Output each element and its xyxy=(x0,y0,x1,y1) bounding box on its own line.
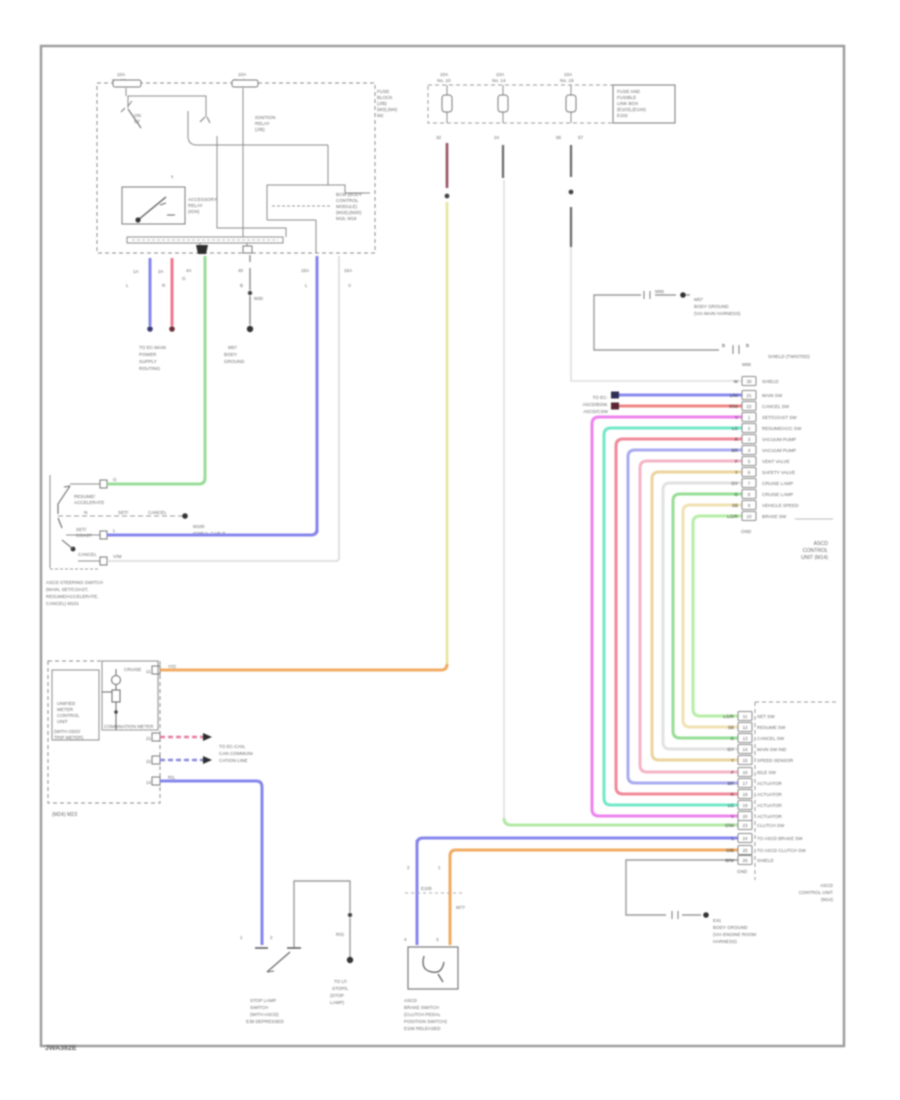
svg-text:HARNESS): HARNESS) xyxy=(713,939,737,944)
svg-text:METER: METER xyxy=(57,707,74,712)
wire orange horizontal xyxy=(450,850,738,856)
fuse box top middle dashed xyxy=(428,85,613,123)
svg-text:(WITH ODO/: (WITH ODO/ xyxy=(54,729,81,734)
loop palegreen xyxy=(693,516,742,716)
svg-text:VEHICLE SPEED: VEHICLE SPEED xyxy=(762,503,799,508)
inner dashed line xyxy=(272,205,330,207)
svg-text:CANCEL: CANCEL xyxy=(148,510,167,515)
shield splice dot 2 xyxy=(703,912,709,918)
svg-text:CANCEL SW: CANCEL SW xyxy=(757,736,785,741)
common splice dot xyxy=(182,513,188,519)
wire pale cancel to switch xyxy=(107,558,339,561)
svg-text:2: 2 xyxy=(748,426,751,431)
svg-text:CLUTCH SW: CLUTCH SW xyxy=(757,823,785,828)
svg-text:BODY GROUND: BODY GROUND xyxy=(694,304,729,309)
svg-text:22: 22 xyxy=(746,404,752,409)
meter pin txl xyxy=(152,733,160,741)
svg-text:8: 8 xyxy=(748,492,751,497)
svg-text:SB: SB xyxy=(732,503,738,508)
wire palegreen horizontal xyxy=(504,818,738,825)
wire TX dashed pink xyxy=(160,736,203,739)
svg-text:(M18),(M20): (M18),(M20) xyxy=(336,210,362,215)
svg-text:L: L xyxy=(305,283,308,288)
fuse F2 xyxy=(232,80,258,87)
svg-text:SHIELD: SHIELD xyxy=(762,379,779,384)
svg-text:10: 10 xyxy=(746,514,752,519)
svg-text:E38 DEPRESSED: E38 DEPRESSED xyxy=(246,1019,284,1024)
svg-text:E106 RELEASED: E106 RELEASED xyxy=(404,1026,441,1031)
svg-text:3: 3 xyxy=(748,437,751,442)
wire gray segment f5b xyxy=(570,207,572,247)
svg-text:3: 3 xyxy=(436,937,439,942)
svg-text:GY: GY xyxy=(731,481,738,486)
svg-text:SET SW: SET SW xyxy=(757,714,775,719)
svg-text:GND: GND xyxy=(737,869,748,874)
loop beige xyxy=(683,505,742,727)
svg-text:20: 20 xyxy=(742,814,748,819)
svg-text:14: 14 xyxy=(742,747,748,752)
svg-text:FUSE: FUSE xyxy=(377,89,389,94)
fuse F1 xyxy=(113,80,141,87)
svg-text:O/B: O/B xyxy=(726,848,734,853)
svg-text:(M24) M23: (M24) M23 xyxy=(52,812,77,818)
svg-text:15: 15 xyxy=(742,758,748,763)
fuse F4 xyxy=(502,85,504,123)
svg-text:RELAY: RELAY xyxy=(255,121,270,126)
svg-text:LAMP): LAMP) xyxy=(330,1000,345,1005)
bus bar xyxy=(127,237,283,243)
svg-text:Y/O: Y/O xyxy=(168,664,176,669)
svg-text:1A: 1A xyxy=(133,269,140,274)
svg-text:(WITH ASCD): (WITH ASCD) xyxy=(250,1012,279,1017)
svg-text:BRAKE SW: BRAKE SW xyxy=(762,514,787,519)
meter pin stop xyxy=(152,777,160,785)
svg-text:MAIN SW IND: MAIN SW IND xyxy=(757,747,787,752)
wire orange down pedal xyxy=(449,856,452,945)
svg-text:ON: ON xyxy=(134,113,141,118)
svg-text:ACTUATOR: ACTUATOR xyxy=(757,781,783,786)
top right shield loop xyxy=(594,295,719,350)
svg-text:No. 19: No. 19 xyxy=(560,78,574,83)
stop lamp switch contacts xyxy=(255,947,301,949)
wire ground gray xyxy=(249,255,251,262)
svg-text:21: 21 xyxy=(146,736,152,741)
svg-text:LG/R: LG/R xyxy=(723,714,734,719)
svg-text:CAN COMMUNI-: CAN COMMUNI- xyxy=(219,751,254,756)
svg-text:CRUISE: CRUISE xyxy=(124,667,141,672)
svg-text:GND: GND xyxy=(741,529,752,534)
ASCD steering switch left bar xyxy=(49,475,51,568)
svg-text:M66: M66 xyxy=(655,289,664,294)
svg-text:TO ASCD CLUTCH SW: TO ASCD CLUTCH SW xyxy=(757,848,806,853)
svg-text:UNIT (M14): UNIT (M14) xyxy=(801,555,828,561)
svg-text:ASCD/CSW: ASCD/CSW xyxy=(583,409,608,414)
svg-text:40: 40 xyxy=(238,268,244,273)
svg-text:16A: 16A xyxy=(344,268,353,273)
svg-text:N: N xyxy=(84,510,87,515)
svg-text:E41: E41 xyxy=(713,918,722,923)
wire Y down long xyxy=(446,202,449,666)
svg-text:GROUND: GROUND xyxy=(224,359,245,364)
arrow TX xyxy=(203,733,212,741)
vertical into box xyxy=(327,145,329,185)
bottom right shield loop xyxy=(626,860,742,915)
svg-text:CONTROL: CONTROL xyxy=(57,713,80,718)
wire violet from meter down xyxy=(160,781,262,945)
svg-text:L/W: L/W xyxy=(730,393,739,398)
connector end R xyxy=(169,326,175,332)
svg-text:1: 1 xyxy=(438,865,441,870)
stop lamp switch gray U wire xyxy=(294,881,350,947)
svg-text:UNIFIED: UNIFIED xyxy=(57,701,76,706)
svg-text:CONTROL UNIT: CONTROL UNIT xyxy=(799,890,833,895)
resistor xyxy=(112,690,120,702)
relay contact curve xyxy=(188,111,328,145)
svg-text:1: 1 xyxy=(748,415,751,420)
wire blue horizontal xyxy=(417,838,738,844)
svg-text:E102: E102 xyxy=(617,113,628,118)
svg-text:ACTUATOR: ACTUATOR xyxy=(757,803,783,808)
svg-text:B/W: B/W xyxy=(725,858,734,863)
svg-text:9: 9 xyxy=(748,503,751,508)
svg-text:(M14): (M14) xyxy=(821,897,833,902)
svg-text:17: 17 xyxy=(742,781,748,786)
module box lower dashed xyxy=(755,702,836,880)
svg-text:19: 19 xyxy=(742,803,748,808)
svg-text:BODY GROUND: BODY GROUND xyxy=(713,925,748,930)
svg-text:ACTUATOR: ACTUATOR xyxy=(757,814,783,819)
wire violet down pedal xyxy=(416,840,419,945)
switch arm xyxy=(58,486,70,514)
wire blue to switch xyxy=(107,529,317,535)
svg-text:SPEED SENSOR: SPEED SENSOR xyxy=(757,758,794,763)
svg-text:RESUME SW: RESUME SW xyxy=(757,725,786,730)
svg-text:LG: LG xyxy=(728,803,735,808)
cancel arm dot xyxy=(71,547,76,552)
svg-text:SUPPLY: SUPPLY xyxy=(139,359,157,364)
arrow RX xyxy=(203,756,212,764)
wire relay top xyxy=(125,88,127,96)
svg-text:BCM (BODY: BCM (BODY xyxy=(336,192,362,197)
meter right inner box xyxy=(102,661,158,730)
resume contact xyxy=(70,483,100,485)
svg-text:SB: SB xyxy=(728,725,734,730)
svg-text:SAFETY VALVE: SAFETY VALVE xyxy=(762,470,795,475)
svg-text:Y: Y xyxy=(735,470,738,475)
left connector squares xyxy=(611,392,619,399)
wire pale cancel down xyxy=(338,256,340,559)
svg-text:4: 4 xyxy=(748,448,751,453)
svg-text:10A: 10A xyxy=(440,72,449,77)
svg-text:CANCEL: CANCEL xyxy=(78,552,97,557)
svg-text:TO EC-MAIN: TO EC-MAIN xyxy=(139,345,166,350)
wire pale down long f4 xyxy=(503,180,505,823)
svg-text:M16, M19: M16, M19 xyxy=(336,216,357,221)
splice dot xyxy=(445,194,450,199)
svg-text:ASCD: ASCD xyxy=(814,541,829,547)
svg-text:ROUTING: ROUTING xyxy=(139,366,161,371)
svg-text:COAST: COAST xyxy=(76,533,92,538)
wire pale to pin xyxy=(571,379,742,381)
svg-text:V/W: V/W xyxy=(113,554,122,559)
svg-text:SHIELD: SHIELD xyxy=(757,858,774,863)
svg-text:(J/B): (J/B) xyxy=(377,101,387,106)
connector end L xyxy=(147,326,153,332)
svg-text:VENT VALVE: VENT VALVE xyxy=(762,459,790,464)
cancel contact xyxy=(78,560,100,562)
svg-text:BLOCK: BLOCK xyxy=(377,95,394,100)
loop light gray xyxy=(663,483,742,749)
svg-text:ASCD STEERING SWITCH: ASCD STEERING SWITCH xyxy=(46,580,103,585)
svg-text:(CLUTCH PEDAL: (CLUTCH PEDAL xyxy=(404,1012,441,1017)
loop pink xyxy=(640,461,742,772)
splice dot f5 xyxy=(569,190,574,195)
svg-text:POSITION SWITCH): POSITION SWITCH) xyxy=(404,1019,447,1024)
meter dashed separator xyxy=(102,729,158,731)
svg-text:M77: M77 xyxy=(456,905,465,910)
svg-text:TRIP METER): TRIP METER) xyxy=(54,735,84,740)
svg-text:CRUISE LAMP: CRUISE LAMP xyxy=(762,492,793,497)
svg-text:ASCD/BSW,: ASCD/BSW, xyxy=(582,402,608,407)
svg-text:M66: M66 xyxy=(742,362,751,367)
loop green xyxy=(673,494,742,738)
svg-text:G: G xyxy=(182,276,186,281)
svg-text:UNIT: UNIT xyxy=(57,719,68,724)
combination meter dashed box xyxy=(48,661,160,803)
svg-text:6: 6 xyxy=(748,470,751,475)
svg-text:JWA382E: JWA382E xyxy=(45,1045,77,1052)
wire RX dashed violet xyxy=(160,759,203,762)
svg-text:MODULE): MODULE) xyxy=(336,204,358,209)
svg-text:No. 10: No. 10 xyxy=(437,78,451,83)
svg-text:RESUME/ACCELERATE,: RESUME/ACCELERATE, xyxy=(46,594,99,599)
wire fuse2 down xyxy=(242,88,244,237)
circuit breaker box xyxy=(613,85,675,123)
svg-text:SWITCH: SWITCH xyxy=(250,1005,268,1010)
svg-text:IDLE SW: IDLE SW xyxy=(757,770,777,775)
svg-text:TO LT-: TO LT- xyxy=(334,979,348,984)
ignition switch arm xyxy=(128,109,141,128)
svg-text:ACTUATOR: ACTUATOR xyxy=(757,792,783,797)
svg-text:G/W: G/W xyxy=(725,823,735,828)
splice end dot xyxy=(347,957,353,963)
svg-text:LG: LG xyxy=(732,426,739,431)
wire gray segment f5 xyxy=(570,145,572,177)
svg-text:SHIELD (TWISTED): SHIELD (TWISTED) xyxy=(768,354,810,359)
svg-text:RELAY: RELAY xyxy=(188,203,203,208)
svg-text:P: P xyxy=(735,459,738,464)
svg-text:TO EC-: TO EC- xyxy=(593,395,609,400)
svg-text:11: 11 xyxy=(146,669,151,674)
svg-text:10A: 10A xyxy=(564,72,573,77)
svg-text:24: 24 xyxy=(742,836,748,841)
svg-text:ST: ST xyxy=(134,119,140,124)
svg-text:ASCD: ASCD xyxy=(820,883,833,888)
svg-text:SET/COAST SW: SET/COAST SW xyxy=(762,415,797,420)
svg-text:MAIN SW: MAIN SW xyxy=(762,393,783,398)
svg-text:FUSIBLE: FUSIBLE xyxy=(617,95,636,100)
svg-text:B: B xyxy=(240,283,243,288)
common dashed row xyxy=(58,515,182,517)
svg-text:B: B xyxy=(746,343,749,348)
svg-text:5: 5 xyxy=(748,459,751,464)
svg-text:(M3),(M4): (M3),(M4) xyxy=(377,107,398,112)
svg-text:M100: M100 xyxy=(193,524,205,529)
cruise indicator lamp xyxy=(112,676,121,685)
svg-text:(VIA MAIN HARNESS): (VIA MAIN HARNESS) xyxy=(694,311,741,316)
relay arm inside xyxy=(138,197,166,220)
svg-text:(E103),(E104): (E103),(E104) xyxy=(617,107,646,112)
loop magenta xyxy=(592,417,742,816)
svg-text:11: 11 xyxy=(743,714,748,719)
wire green down xyxy=(204,256,207,479)
svg-text:30: 30 xyxy=(746,379,752,384)
svg-text:BR: BR xyxy=(728,781,735,786)
svg-text:CANCEL) M101: CANCEL) M101 xyxy=(46,601,79,606)
svg-text:G: G xyxy=(113,477,117,482)
svg-text:STOP/L: STOP/L xyxy=(332,986,349,991)
shield splice dot xyxy=(680,292,686,298)
svg-text:LG/R: LG/R xyxy=(727,514,738,519)
svg-text:L: L xyxy=(113,528,116,533)
svg-text:CONTROL: CONTROL xyxy=(336,198,359,203)
connector crossing dashes xyxy=(405,892,462,894)
black connector pin xyxy=(196,245,208,254)
loop wheat xyxy=(652,472,742,760)
fuse block (J/B) dashed enclosure xyxy=(97,83,375,253)
meter pin orange xyxy=(152,666,160,674)
svg-text:L: L xyxy=(126,283,129,288)
svg-text:26: 26 xyxy=(742,858,748,863)
wire blue long down xyxy=(316,256,319,533)
svg-text:BRAKE SWITCH: BRAKE SWITCH xyxy=(404,1005,439,1010)
svg-text:W: W xyxy=(734,379,739,384)
svg-text:22: 22 xyxy=(146,759,152,764)
hollow pin xyxy=(243,246,252,253)
svg-text:32: 32 xyxy=(436,135,442,140)
svg-text:ACCESSORY: ACCESSORY xyxy=(188,197,217,202)
wire R pink down xyxy=(171,258,174,326)
svg-text:4A: 4A xyxy=(186,268,193,273)
svg-text:21: 21 xyxy=(746,393,752,398)
svg-text:ASCD: ASCD xyxy=(404,998,417,1003)
svg-text:B: B xyxy=(722,343,725,348)
svg-text:56: 56 xyxy=(556,135,562,140)
svg-text:GY: GY xyxy=(727,747,734,752)
svg-text:ACCELERATE: ACCELERATE xyxy=(74,500,104,505)
svg-text:2: 2 xyxy=(270,935,273,940)
svg-text:16: 16 xyxy=(742,770,748,775)
svg-text:2: 2 xyxy=(407,865,410,870)
wire W/R segment xyxy=(446,143,449,188)
svg-text:TO ASCD BRAKE SW: TO ASCD BRAKE SW xyxy=(757,836,803,841)
svg-text:SET/: SET/ xyxy=(76,527,87,532)
ASCD brake switch box xyxy=(408,947,458,989)
wire red row to unit xyxy=(619,405,742,408)
svg-text:R/L: R/L xyxy=(168,775,176,780)
svg-text:IGNITION: IGNITION xyxy=(255,115,275,120)
svg-text:RESUME/: RESUME/ xyxy=(74,494,96,499)
svg-text:BR: BR xyxy=(732,448,739,453)
svg-text:SET/: SET/ xyxy=(118,510,129,515)
svg-text:(VIA ENGINE ROOM: (VIA ENGINE ROOM xyxy=(713,932,756,937)
ground splice dot xyxy=(247,326,253,332)
svg-text:POWER: POWER xyxy=(139,352,157,357)
meter left inner box xyxy=(52,670,99,740)
svg-text:G: G xyxy=(730,736,734,741)
fuse F3 xyxy=(446,85,448,123)
svg-text:10A: 10A xyxy=(496,72,505,77)
svg-text:12: 12 xyxy=(742,725,748,730)
svg-text:1: 1 xyxy=(240,935,243,940)
svg-text:18: 18 xyxy=(742,792,748,797)
stop lamp switch arm xyxy=(267,952,290,972)
svg-text:(IGN): (IGN) xyxy=(188,209,200,214)
svg-text:L: L xyxy=(731,836,734,841)
fuse F5 xyxy=(570,85,572,123)
svg-text:2A: 2A xyxy=(158,269,165,274)
meter pin rxl xyxy=(152,756,160,764)
upper trailing dash xyxy=(795,518,833,520)
svg-text:(MAIN, SET/COAST,: (MAIN, SET/COAST, xyxy=(46,587,88,592)
wire to border xyxy=(315,220,317,253)
svg-text:CRUISE LAMP: CRUISE LAMP xyxy=(762,481,793,486)
svg-text:(STOP: (STOP xyxy=(330,993,344,998)
svg-text:M57: M57 xyxy=(228,345,237,350)
svg-text:25: 25 xyxy=(742,848,748,853)
loop periwinkle xyxy=(628,450,742,783)
svg-text:FUSE AND: FUSE AND xyxy=(617,89,641,94)
wire branch xyxy=(217,145,286,237)
svg-text:Y: Y xyxy=(731,758,734,763)
svg-text:G: G xyxy=(734,492,738,497)
svg-text:23: 23 xyxy=(742,823,748,828)
svg-text:P: P xyxy=(731,770,734,775)
svg-text:VACUUM PUMP: VACUUM PUMP xyxy=(762,448,796,453)
svg-text:M57: M57 xyxy=(694,297,703,302)
relay coil box xyxy=(122,187,185,224)
svg-text:7: 7 xyxy=(748,481,751,486)
svg-text:13: 13 xyxy=(742,736,748,741)
svg-text:(J/B): (J/B) xyxy=(255,127,265,132)
wire green to switch xyxy=(107,478,205,484)
pedal symbol xyxy=(423,956,444,972)
svg-text:VACUUM PUMP: VACUUM PUMP xyxy=(762,437,796,442)
wire L blue down xyxy=(149,258,152,326)
svg-text:COMBINATION METER: COMBINATION METER xyxy=(104,724,154,729)
svg-text:10A: 10A xyxy=(238,72,247,77)
wire orange from meter xyxy=(160,664,447,670)
wire pale down f5 xyxy=(570,247,572,379)
svg-text:14: 14 xyxy=(146,780,152,785)
svg-text:R/W: R/W xyxy=(729,404,739,409)
svg-text:57: 57 xyxy=(578,135,584,140)
svg-text:BODY: BODY xyxy=(224,352,237,357)
svg-text:CATION LINE: CATION LINE xyxy=(219,758,248,763)
svg-text:24: 24 xyxy=(494,135,500,140)
wire gray segment f4 xyxy=(502,145,504,178)
svg-text:M2: M2 xyxy=(377,113,384,118)
svg-text:No. 14: No. 14 xyxy=(492,78,506,83)
relay tick xyxy=(216,136,218,145)
svg-text:15A: 15A xyxy=(301,268,310,273)
wire blue row to unit xyxy=(619,394,742,397)
right inner box xyxy=(267,185,370,220)
loop rose xyxy=(616,439,742,794)
svg-text:TO EC-CAN,: TO EC-CAN, xyxy=(219,744,245,749)
bus pin ticks xyxy=(200,243,247,253)
svg-text:E105: E105 xyxy=(421,886,432,891)
